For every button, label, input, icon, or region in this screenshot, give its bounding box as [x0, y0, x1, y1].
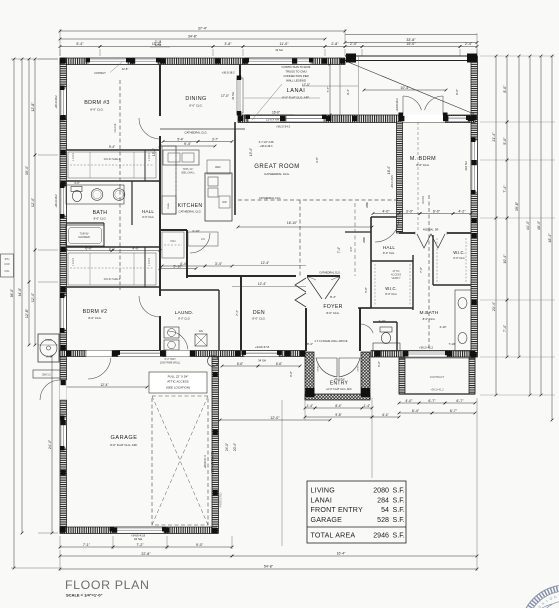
svg-text:1'-4": 1'-4" — [364, 404, 370, 408]
svg-text:6'-7": 6'-7" — [456, 399, 464, 403]
svg-text:TOTAL AREA: TOTAL AREA — [311, 532, 356, 540]
svg-text:(2X6 FRME WALL): (2X6 FRME WALL) — [160, 362, 181, 365]
svg-text:M. BDRM: M. BDRM — [410, 156, 436, 162]
svg-text:37'-4": 37'-4" — [198, 27, 208, 31]
svg-text:8'-0" CLG.: 8'-0" CLG. — [416, 163, 430, 167]
svg-text:VERIFY: VERIFY — [391, 277, 400, 280]
svg-text:9'-0": 9'-0" — [455, 89, 459, 95]
svg-text:3'-0": 3'-0" — [406, 209, 414, 213]
svg-text:8'-0" CLG.: 8'-0" CLG. — [326, 311, 340, 315]
svg-text:CATHEDRAL CLG.: CATHEDRAL CLG. — [179, 210, 202, 214]
svg-text:6'-6": 6'-6" — [276, 362, 282, 366]
svg-text:HALL: HALL — [383, 245, 396, 250]
svg-text:12'-4": 12'-4" — [261, 261, 270, 265]
svg-text:4'-0": 4'-0" — [405, 399, 413, 403]
svg-text:CONTR.TAJS TO EXIF: CONTR.TAJS TO EXIF — [282, 65, 311, 69]
svg-text:DW: DW — [222, 200, 227, 204]
svg-text:22'-8": 22'-8" — [141, 552, 151, 556]
svg-text:6'-6": 6'-6" — [237, 362, 243, 366]
svg-text:8'-0" CLG: 8'-0" CLG — [178, 317, 190, 321]
svg-text:8'-0" CLG: 8'-0" CLG — [453, 256, 464, 260]
svg-text:8'-4": 8'-4" — [330, 295, 336, 299]
svg-text:8'-0" CLG.: 8'-0" CLG. — [90, 108, 104, 112]
svg-text:+34.8/-36.3: +34.8/-36.3 — [395, 98, 399, 112]
svg-text:15'-4": 15'-4" — [152, 148, 156, 156]
svg-text:CATHEDRAL CLG.: CATHEDRAL CLG. — [185, 131, 208, 135]
svg-text:12'-0": 12'-0" — [270, 416, 280, 420]
svg-text:54: 54 — [381, 506, 389, 514]
svg-text:+38.2/-36.3: +38.2/-36.3 — [260, 145, 273, 148]
svg-text:4930 BAL. DR.: 4930 BAL. DR. — [423, 229, 439, 232]
svg-text:7'-4": 7'-4" — [503, 324, 507, 332]
svg-text:10'-4": 10'-4" — [400, 86, 410, 90]
svg-text:+34.8/-41.8: +34.8/-41.8 — [131, 534, 146, 538]
svg-text:8'-0" CLG: 8'-0" CLG — [142, 215, 153, 219]
svg-text:34 SH: 34 SH — [258, 359, 266, 363]
svg-text:4'-10": 4'-10" — [439, 325, 446, 329]
svg-text:+36.2/-41.2: +36.2/-41.2 — [419, 346, 434, 350]
svg-text:LIN: LIN — [201, 238, 205, 241]
svg-text:+0'-0" FLAT CLG. AFF.: +0'-0" FLAT CLG. AFF. — [326, 387, 352, 391]
svg-text:7'-10": 7'-10" — [448, 342, 455, 346]
svg-text:9'-0": 9'-0" — [196, 543, 204, 547]
svg-text:9'-4": 9'-4" — [346, 89, 350, 95]
svg-text:1 R & S: 1 R & S — [72, 257, 75, 266]
svg-text:9'-4": 9'-4" — [109, 145, 115, 149]
svg-text:5'-4": 5'-4" — [177, 137, 183, 141]
svg-text:FLOOR PLAN: FLOOR PLAN — [65, 578, 150, 592]
svg-text:1 R & S: 1 R & S — [148, 257, 151, 266]
svg-text:12.68: 12.68 — [155, 43, 162, 47]
svg-text:2'-8": 2'-8" — [331, 42, 339, 46]
svg-text:34 SH: 34 SH — [231, 92, 235, 100]
svg-text:7'-4": 7'-4" — [503, 185, 507, 193]
svg-text:9'-8": 9'-8" — [335, 413, 341, 417]
svg-text:12'-4": 12'-4" — [100, 383, 108, 387]
svg-text:8'-0" FLAT CLG. AFF.: 8'-0" FLAT CLG. AFF. — [282, 96, 310, 100]
svg-text:12'-4": 12'-4" — [258, 282, 267, 286]
svg-text:54'-8": 54'-8" — [264, 565, 274, 569]
svg-text:8'-4": 8'-4" — [335, 404, 341, 408]
svg-text:46'-4": 46'-4" — [537, 220, 541, 230]
svg-text:SOLID SHELF: SOLID SHELF — [104, 157, 121, 161]
svg-text:34'-8": 34'-8" — [188, 35, 198, 39]
svg-text:6'-4": 6'-4" — [382, 413, 388, 417]
svg-text:11'-0": 11'-0" — [280, 42, 290, 46]
svg-text:GREAT ROOM: GREAT ROOM — [254, 164, 299, 170]
svg-text:PULL 22" X 54": PULL 22" X 54" — [168, 375, 189, 379]
svg-text:3'-8": 3'-8" — [315, 157, 319, 163]
svg-text:LANAI: LANAI — [287, 88, 306, 94]
svg-text:6'-0": 6'-0" — [85, 246, 93, 250]
svg-text:8'-0": 8'-0" — [109, 248, 115, 252]
svg-text:8'-0" CLG.: 8'-0" CLG. — [252, 317, 266, 321]
svg-text:86'-8": 86'-8" — [10, 288, 14, 297]
svg-text:5'-8": 5'-8" — [364, 287, 368, 293]
svg-text:S.F.: S.F. — [393, 532, 405, 540]
svg-text:+34.8/-37.8: +34.8/-37.8 — [255, 345, 270, 349]
svg-text:15'-0": 15'-0" — [406, 42, 416, 46]
svg-text:(SEE LOCATION): (SEE LOCATION) — [166, 386, 190, 390]
svg-text:CONNECTION PER: CONNECTION PER — [283, 74, 308, 78]
svg-text:S.F.: S.F. — [393, 516, 405, 524]
svg-text:FRONT ENTRY: FRONT ENTRY — [311, 506, 363, 514]
svg-text:ATTIC ACCESS: ATTIC ACCESS — [167, 380, 188, 384]
svg-text:GARAGE: GARAGE — [311, 516, 343, 524]
svg-text:KITCHEN: KITCHEN — [178, 203, 203, 209]
svg-text:+36.2/-5.2: +36.2/-5.2 — [334, 378, 346, 381]
svg-text:2'-4": 2'-4" — [350, 42, 358, 46]
svg-text:35M 3.C: 35M 3.C — [42, 374, 51, 377]
svg-text:COND: COND — [45, 339, 52, 342]
svg-text:3'-8": 3'-8" — [224, 42, 232, 46]
svg-text:16'-4": 16'-4" — [337, 552, 346, 556]
svg-text:(DBL) WALL: (DBL) WALL — [181, 172, 196, 175]
svg-text:+36.8/-37.4: +36.8/-37.4 — [203, 455, 207, 469]
svg-text:16'-6": 16'-6" — [272, 111, 280, 115]
svg-text:GARAGE: GARAGE — [111, 435, 138, 441]
svg-text:8'-4": 8'-4" — [307, 342, 313, 346]
svg-text:CATHEDRAL CLG.: CATHEDRAL CLG. — [259, 196, 281, 200]
svg-text:528: 528 — [377, 516, 389, 524]
svg-text:FOYER: FOYER — [323, 304, 342, 310]
svg-text:7'-7": 7'-7" — [326, 87, 330, 93]
svg-text:8'-0" CLG.: 8'-0" CLG. — [383, 251, 395, 255]
svg-text:+3'6.2/-4'6.5: +3'6.2/-4'6.5 — [391, 175, 394, 189]
svg-text:+36.2/-34.3: +36.2/-34.3 — [276, 125, 291, 129]
svg-text:SIDELT: SIDELT — [358, 364, 360, 372]
svg-text:PAN: PAN — [171, 240, 176, 243]
svg-text:SHOWER: SHOWER — [78, 235, 90, 239]
svg-text:3'-10": 3'-10" — [379, 319, 386, 323]
svg-text:+36.2/-41.2: +36.2/-41.2 — [430, 388, 444, 392]
svg-text:1 R & S: 1 R & S — [72, 152, 75, 161]
svg-text:BDRM #2: BDRM #2 — [83, 309, 108, 315]
svg-text:OVEN: OVEN — [168, 202, 170, 209]
svg-text:12'-4": 12'-4" — [31, 197, 35, 207]
svg-text:16'-10": 16'-10" — [287, 221, 298, 225]
svg-text:COL: COL — [5, 270, 11, 273]
svg-text:3'-0": 3'-0" — [349, 246, 353, 251]
svg-text:CATHEDRAL CLG.: CATHEDRAL CLG. — [264, 172, 290, 176]
svg-text:2 X 6 FRAME WALL ABOVE: 2 X 6 FRAME WALL ABOVE — [315, 339, 348, 343]
svg-text:7'-4": 7'-4" — [235, 310, 239, 316]
svg-text:16' X 7' O.H.D.: 16' X 7' O.H.D. — [211, 451, 215, 473]
svg-text:12'-8": 12'-8" — [122, 67, 129, 71]
svg-text:REF: REF — [215, 165, 221, 169]
svg-text:W.I.C.: W.I.C. — [385, 286, 396, 291]
svg-text:SCALE = 1/4"=1'-0": SCALE = 1/4"=1'-0" — [66, 593, 103, 598]
svg-text:2'-4": 2'-4" — [465, 42, 473, 46]
svg-text:6'-7": 6'-7" — [428, 399, 436, 403]
svg-text:LANAI: LANAI — [311, 496, 333, 504]
svg-text:+: + — [212, 360, 214, 364]
svg-text:8'-0": 8'-0" — [503, 85, 507, 93]
svg-text:4'-0": 4'-0" — [132, 246, 140, 250]
svg-text:34 SH: 34 SH — [134, 537, 142, 541]
svg-text:44'-4": 44'-4" — [526, 220, 530, 230]
svg-text:LAUND.: LAUND. — [175, 310, 194, 316]
svg-text:39'-8": 39'-8" — [515, 201, 519, 211]
svg-text:30'-4": 30'-4" — [25, 165, 29, 175]
svg-text:CCO: CCO — [4, 263, 9, 266]
svg-text:8'-0" CLG.: 8'-0" CLG. — [88, 316, 102, 320]
svg-text:+36.2/-38.2: +36.2/-38.2 — [54, 95, 58, 109]
svg-text:ENTRY: ENTRY — [330, 381, 349, 387]
svg-text:S.F.: S.F. — [393, 496, 405, 504]
svg-text:2868: 2868 — [363, 237, 366, 243]
svg-text:BATH: BATH — [93, 210, 108, 216]
svg-text:DINING: DINING — [185, 96, 206, 102]
svg-text:3'-7 1/2" 2.68: 3'-7 1/2" 2.68 — [259, 141, 274, 144]
svg-text:LIVING: LIVING — [311, 487, 335, 495]
svg-text:17'-0": 17'-0" — [302, 83, 310, 87]
svg-text:S.F.: S.F. — [393, 487, 405, 495]
svg-text:12'-8": 12'-8" — [25, 308, 29, 318]
svg-text:5'-0": 5'-0" — [503, 137, 507, 145]
svg-text:23'-4": 23'-4" — [492, 301, 496, 311]
svg-text:24'-4": 24'-4" — [48, 439, 52, 449]
svg-text:5'-4": 5'-4" — [76, 42, 84, 46]
svg-text:1 R & S: 1 R & S — [148, 152, 151, 161]
svg-text:7'-2": 7'-2" — [136, 543, 144, 547]
svg-text:3'-7": 3'-7" — [212, 137, 218, 141]
svg-text:4'-0": 4'-0" — [382, 209, 390, 213]
svg-text:6'-0": 6'-0" — [433, 209, 441, 213]
svg-text:7'-0": 7'-0" — [419, 267, 423, 273]
svg-text:7'-1": 7'-1" — [83, 543, 91, 547]
svg-text:10'-4": 10'-4" — [503, 254, 507, 264]
svg-text:12'-4": 12'-4" — [31, 292, 35, 302]
svg-text:15'-4": 15'-4" — [249, 148, 253, 156]
svg-text:2080: 2080 — [373, 487, 389, 495]
svg-text:2868: 2868 — [366, 202, 369, 208]
svg-text:S.F.: S.F. — [393, 506, 405, 514]
svg-text:3'-0": 3'-0" — [74, 181, 80, 185]
svg-text:8'-0" CLG.: 8'-0" CLG. — [94, 217, 107, 221]
svg-text:16'-4": 16'-4" — [387, 166, 391, 174]
svg-text:CONTRACT: CONTRACT — [430, 375, 445, 379]
svg-text:4'-2": 4'-2" — [458, 209, 466, 213]
svg-text:CONTACT: CONTACT — [94, 72, 106, 75]
svg-text:WALL LEGEND: WALL LEGEND — [286, 79, 306, 83]
svg-text:CATHEDRAL CLG.: CATHEDRAL CLG. — [319, 272, 341, 275]
svg-text:TUB W/: TUB W/ — [79, 232, 88, 236]
svg-text:BDRM #3: BDRM #3 — [84, 100, 109, 106]
svg-text:5'-10": 5'-10" — [173, 264, 183, 268]
svg-text:34 SH: 34 SH — [275, 48, 282, 52]
svg-text:8'-0" CLG: 8'-0" CLG — [385, 292, 396, 296]
svg-text:SIDELT: SIDELT — [318, 364, 320, 372]
svg-text:284: 284 — [377, 496, 389, 504]
svg-text:W.I.C.: W.I.C. — [453, 250, 464, 255]
svg-text:UNIT: UNIT — [46, 356, 52, 359]
svg-text:434 SH: 434 SH — [464, 161, 468, 170]
svg-text:24'-0": 24'-0" — [225, 443, 229, 451]
svg-text:20'-4": 20'-4" — [233, 443, 237, 451]
svg-text:TRUSS TO CMU: TRUSS TO CMU — [285, 70, 306, 74]
svg-text:64'-8": 64'-8" — [18, 287, 22, 296]
svg-text:8'-0" FLAT CLG. AFF.: 8'-0" FLAT CLG. AFF. — [110, 443, 138, 447]
svg-text:CHASE: CHASE — [113, 123, 117, 132]
svg-text:2946: 2946 — [373, 532, 389, 540]
svg-text:7'-4": 7'-4" — [337, 247, 341, 253]
svg-text:6'-0": 6'-0" — [377, 361, 381, 367]
svg-text:21'-4": 21'-4" — [492, 132, 496, 142]
svg-text:STU: STU — [5, 258, 10, 261]
svg-text:6'-0": 6'-0" — [289, 371, 293, 377]
svg-text:48'-4": 48'-4" — [548, 233, 552, 243]
svg-text:3'-10": 3'-10" — [192, 229, 200, 233]
svg-text:SOLID SHELF: SOLID SHELF — [104, 277, 121, 281]
svg-text:9'-4": 9'-4" — [184, 142, 192, 146]
svg-text:+36.2/-38.2: +36.2/-38.2 — [54, 194, 58, 208]
svg-text:HALL: HALL — [142, 209, 155, 214]
svg-text:6'-4": 6'-4" — [412, 409, 420, 413]
svg-text:PROTECTED: PROTECTED — [220, 492, 223, 507]
svg-text:3'-4": 3'-4" — [215, 262, 223, 266]
svg-text:WH: WH — [199, 329, 203, 333]
svg-text:DEN: DEN — [253, 310, 265, 316]
svg-text:1'-4": 1'-4" — [307, 404, 313, 408]
svg-text:+38.3/-38.3: +38.3/-38.3 — [222, 72, 235, 75]
svg-text:DRESS: DRESS — [422, 195, 425, 204]
svg-text:6'-7": 6'-7" — [450, 409, 458, 413]
svg-text:17'-0": 17'-0" — [221, 94, 229, 98]
svg-text:8'-0" CLG.: 8'-0" CLG. — [189, 104, 203, 108]
svg-text:12'-8": 12'-8" — [31, 102, 35, 112]
